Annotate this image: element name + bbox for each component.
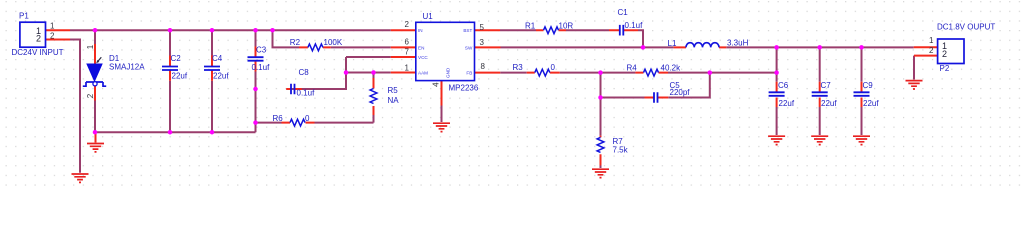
- svg-text:1: 1: [50, 22, 55, 31]
- svg-text:P1: P1: [19, 12, 29, 21]
- svg-text:2: 2: [929, 46, 934, 55]
- svg-text:2: 2: [36, 33, 41, 43]
- svg-text:7.5k: 7.5k: [613, 145, 629, 154]
- svg-text:22uf: 22uf: [779, 99, 795, 108]
- svg-text:MP2236: MP2236: [449, 83, 479, 92]
- svg-text:100K: 100K: [324, 38, 343, 47]
- svg-text:DC24V INPUT: DC24V INPUT: [12, 48, 64, 57]
- svg-text:R4: R4: [627, 63, 638, 72]
- svg-text:R2: R2: [290, 38, 301, 47]
- svg-text:10R: 10R: [559, 21, 574, 30]
- svg-text:22uf: 22uf: [213, 72, 229, 81]
- svg-text:EN: EN: [418, 45, 424, 50]
- svg-text:4: 4: [431, 82, 440, 87]
- svg-text:C6: C6: [778, 81, 789, 90]
- svg-text:22uf: 22uf: [821, 99, 837, 108]
- svg-text:2: 2: [50, 31, 55, 40]
- svg-text:22uf: 22uf: [172, 72, 188, 81]
- svg-text:C8: C8: [299, 68, 310, 77]
- svg-text:1: 1: [86, 44, 95, 49]
- svg-text:R3: R3: [513, 63, 524, 72]
- svg-text:C7: C7: [821, 81, 832, 90]
- svg-text:C1: C1: [618, 8, 629, 17]
- svg-text:2: 2: [86, 93, 95, 98]
- svg-text:C9: C9: [863, 81, 874, 90]
- svg-text:6: 6: [405, 38, 410, 47]
- svg-text:C4: C4: [212, 54, 223, 63]
- svg-text:2: 2: [942, 49, 947, 59]
- svg-text:3.3uH: 3.3uH: [727, 39, 749, 48]
- svg-text:2: 2: [405, 20, 410, 29]
- svg-text:40.2k: 40.2k: [661, 63, 682, 72]
- svg-text:BST: BST: [463, 28, 472, 33]
- svg-text:SW: SW: [465, 45, 473, 50]
- svg-text:0: 0: [551, 63, 556, 72]
- svg-text:22uf: 22uf: [863, 99, 879, 108]
- svg-text:R6: R6: [273, 114, 284, 123]
- svg-text:C2: C2: [171, 54, 182, 63]
- svg-text:3: 3: [480, 38, 485, 47]
- svg-text:P2: P2: [940, 64, 950, 73]
- svg-text:8: 8: [481, 62, 486, 71]
- svg-text:0.1uf: 0.1uf: [297, 89, 316, 98]
- svg-text:R1: R1: [525, 21, 536, 30]
- svg-text:L1: L1: [668, 39, 677, 48]
- svg-text:NA: NA: [388, 96, 400, 105]
- svg-text:R5: R5: [388, 86, 399, 95]
- svg-text:1: 1: [929, 36, 934, 45]
- svg-text:SMAJ12A: SMAJ12A: [109, 63, 145, 72]
- svg-text:DC1.8V OUPUT: DC1.8V OUPUT: [937, 22, 995, 31]
- svg-text:U1: U1: [423, 12, 434, 21]
- svg-text:0: 0: [305, 114, 310, 123]
- svg-text:C3: C3: [256, 46, 267, 55]
- svg-text:1: 1: [405, 63, 410, 72]
- svg-text:220pf: 220pf: [670, 88, 691, 97]
- svg-text:5: 5: [480, 23, 485, 32]
- svg-text:GND: GND: [446, 67, 451, 78]
- svg-text:7: 7: [405, 47, 410, 56]
- svg-text:0.1uf: 0.1uf: [252, 63, 271, 72]
- svg-text:VCC: VCC: [418, 55, 428, 60]
- svg-text:IN: IN: [418, 28, 423, 33]
- svg-text:FB: FB: [466, 71, 472, 76]
- svg-text:0.1uf: 0.1uf: [625, 21, 644, 30]
- svg-text:AAM: AAM: [418, 71, 428, 76]
